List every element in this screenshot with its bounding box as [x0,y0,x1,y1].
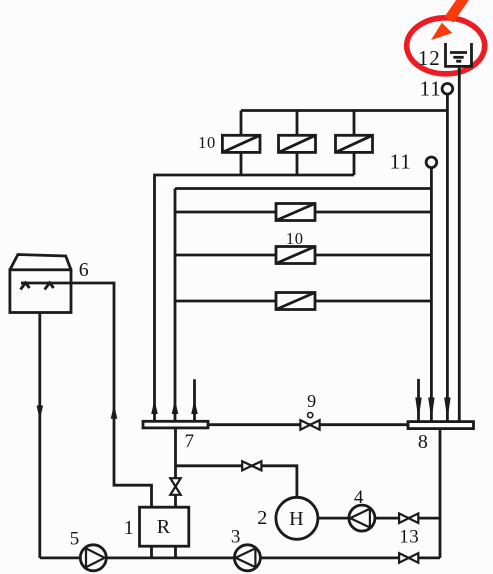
pump 3 [234,545,260,571]
arrow up on tank 6 feed riser [111,404,118,419]
air vent 11 (lower) [426,157,437,168]
red annotation ellipse [407,18,485,74]
heater H (2) [276,497,318,539]
wire: riser from tank 12 down to manifold 8 [458,66,461,421]
air vent 11 (upper) [442,84,453,95]
arrow up on riser A [151,400,158,415]
manifold 7 [143,421,208,428]
pump 4 [349,505,375,531]
svg-text:11: 11 [390,150,412,174]
tank 6 [10,255,71,313]
wire: return pipe under top radiators and left riser A [155,175,355,421]
wire: radiator row 2 [175,254,431,257]
svg-text:H: H [289,508,303,530]
wire: right drop from manifold 8 [439,429,442,558]
valve on bottom pipe (right) [399,553,418,563]
valve 13 [399,513,418,523]
radiator 10 (row 2) [276,247,315,264]
wire: short stub riser into manifold 7 [193,379,196,421]
wire: radiator row 1 [175,211,431,214]
red annotation arrow [431,0,466,40]
svg-text:9: 9 [307,391,316,411]
arrow up on riser B [172,400,179,415]
wire: stubs below boiler R [152,546,176,558]
wire: top supply pipe [241,109,447,112]
manifold 8 [408,422,474,429]
svg-text:3: 3 [231,526,241,547]
radiator 10 (row 3) [276,293,315,310]
node: sensor circle of valve 9 [308,413,313,418]
radiator 10 (top row left) [222,135,260,152]
boiler R (1) [140,507,189,546]
pump 5 [80,545,106,571]
arrow down on tank 6 outlet [37,406,44,420]
svg-text:13: 13 [399,527,419,548]
radiator 10 (top row right) [336,135,373,152]
svg-text:4: 4 [354,487,364,508]
expansion tank 12 [446,43,472,66]
svg-text:8: 8 [418,431,428,453]
arrow down on lower vent riser [428,398,434,421]
svg-text:11: 11 [420,77,442,101]
arrow down on upper vent riser [444,398,450,421]
wire: stub risers of top radiators [241,111,354,176]
wire: riser from lower vent down to manifold 8 [430,168,433,422]
wire: from H to pump 4 and valve 13 [318,517,440,520]
arrow up on short stub at manifold 7 [191,400,198,415]
radiator 10 (top row middle) [279,135,316,152]
wire: second level pipe [175,187,431,190]
wire: bottom pipe [40,557,440,560]
wire: short stub riser into manifold 8 [417,379,420,422]
wire: tank 6 outlet down to pump 5 [38,313,41,558]
radiator 10 (row 1) [276,204,315,221]
svg-text:1: 1 [124,517,134,539]
valve above boiler R [170,478,180,495]
svg-text:5: 5 [70,529,80,550]
wire: left riser B down to manifold 7 [174,189,177,422]
wire: pipe between manifolds 7 and 8 [208,423,408,426]
spray nozzles in tank 6 [21,283,54,290]
svg-text:12: 12 [418,46,441,70]
wire: pipe from boiler R up into tank 6 [21,283,152,507]
wire: drop from manifold 7 to boiler R [174,428,177,507]
svg-text:6: 6 [79,259,89,281]
valve on branch to H [242,461,261,470]
wire: radiator row 3 [175,300,431,303]
arrow down on short stub at manifold 8 [415,398,421,421]
valve 9 [300,420,319,430]
wire: branch to heater H [176,466,297,498]
svg-text:7: 7 [184,431,194,452]
svg-text:10: 10 [198,133,216,152]
svg-text:2: 2 [257,507,267,529]
svg-text:R: R [157,516,171,538]
wire: riser from upper vent down to manifold 8 [446,94,449,422]
